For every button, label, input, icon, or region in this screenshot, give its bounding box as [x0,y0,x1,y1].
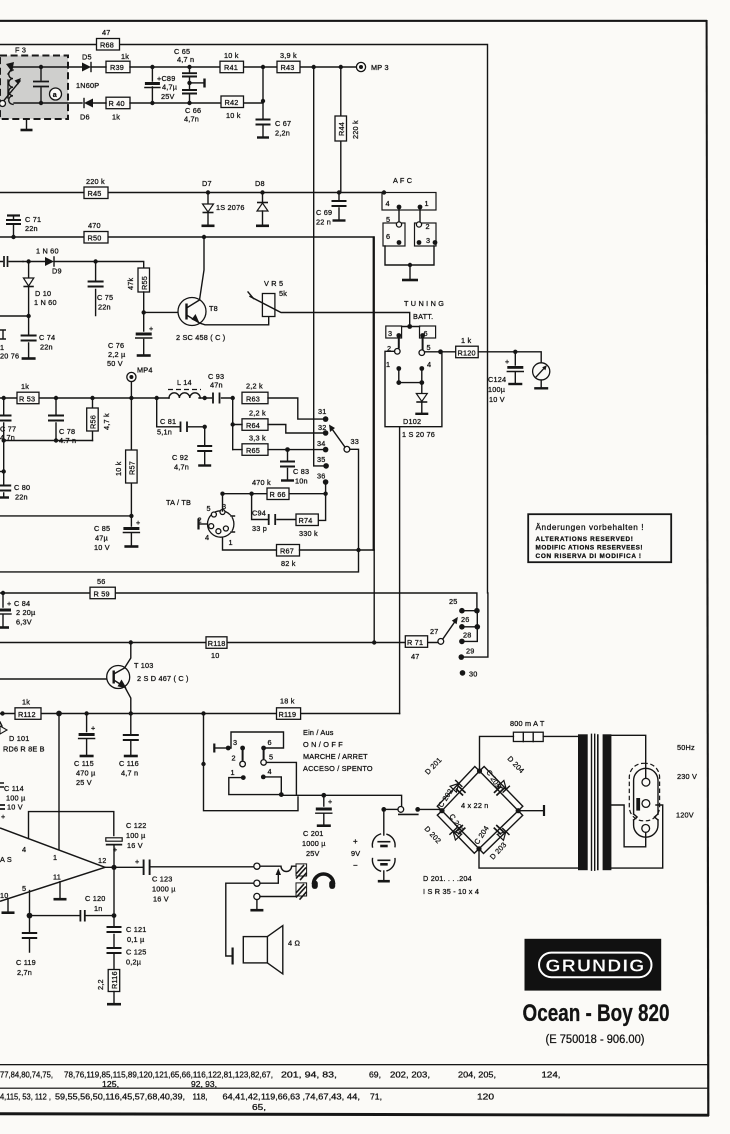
svg-text:0,2µ: 0,2µ [126,958,142,967]
capacitor C66 [182,83,201,124]
svg-text:22n: 22n [40,343,53,352]
resistor R65 [233,434,324,456]
node C78 top [54,396,58,400]
capacitor C81 branch [157,398,205,437]
wire amp pin5 [29,891,31,916]
svg-text:D 201. . . .204: D 201. . . .204 [423,874,472,883]
wire feedback column x59 [58,714,60,812]
node C75 top [93,259,97,263]
svg-text:2 SC 458 ( C ): 2 SC 458 ( C ) [176,333,225,342]
wire bridge top to fuse row [480,736,579,771]
capacitor C89 electrolytic [145,65,178,105]
wire R68 row y44.5 [0,45,488,593]
diode D9 [23,247,96,276]
svg-text:C 123: C 123 [152,875,172,884]
svg-text:1n: 1n [94,904,103,913]
svg-text:65,: 65, [252,1102,266,1112]
svg-text:10 V: 10 V [7,803,23,812]
svg-text:R63: R63 [246,394,260,403]
svg-text:35: 35 [317,455,326,464]
svg-text:5: 5 [427,343,431,352]
switch EinAus top box pins 3 6 [228,732,283,750]
amplifier triangle [0,828,107,901]
wire main row y398 [0,397,233,399]
switch AFC upper box pins 4 1 [382,190,436,210]
svg-text:4: 4 [268,767,272,776]
svg-text:2: 2 [232,754,236,763]
resistor R67 [277,545,300,569]
capacitor C122 electrolytic [106,821,147,867]
wire R59 row y593 [0,593,477,608]
node D10 top [26,259,30,263]
svg-text:800 m A T: 800 m A T [510,719,545,728]
diode D8 [255,179,269,226]
svg-text:4,7 n: 4,7 n [121,769,138,778]
svg-text:220 k: 220 k [86,177,105,186]
svg-text:29: 29 [466,647,475,656]
svg-text:+: + [149,324,153,333]
svg-text:C 115: C 115 [74,759,94,768]
fuse 800mAT [510,719,545,742]
svg-text:MODIFIC ATIONS RESERVEES!: MODIFIC ATIONS RESERVEES! [536,545,644,552]
terminal MP3 [356,62,388,72]
svg-text:1 N 60: 1 N 60 [34,298,57,307]
svg-text:C 74: C 74 [39,333,55,342]
svg-text:+: + [353,837,358,846]
svg-text:D 101: D 101 [9,734,29,743]
svg-text:1: 1 [231,768,235,777]
svg-text:2 S D 467 ( C ): 2 S D 467 ( C ) [137,674,189,683]
svg-text:25: 25 [449,597,458,606]
node bottom row left [2,438,6,442]
notice box Aenderungen vorbehalten [528,514,671,562]
svg-text:74,67,43, 44,: 74,67,43, 44, [305,1092,360,1102]
svg-text:C 114: C 114 [4,784,24,793]
svg-text:D102: D102 [403,417,421,426]
node T8 collector on R50 row [202,235,206,239]
svg-text:50 V: 50 V [107,359,123,368]
switch AFC lower left box pins 5 6 [383,209,405,246]
svg-text:25 V: 25 V [76,778,92,787]
diode D101 zener partial [0,722,45,754]
svg-text:1k: 1k [21,382,29,391]
switch contact 26 [459,611,480,630]
svg-text:10 V: 10 V [94,543,110,552]
node EinAus branch [201,711,205,715]
svg-text:1: 1 [229,538,233,547]
battery 9V [351,807,395,881]
svg-text:201, 94, 83,: 201, 94, 83, [281,1070,337,1080]
node pin5 C120 [27,913,33,919]
svg-text:10n: 10n [295,477,308,486]
node T103 collector [129,640,133,644]
speaker [233,926,301,974]
svg-text:+: + [136,518,140,527]
tap between C65 C66 [187,79,204,88]
svg-text:R 66: R 66 [270,490,286,499]
diode D6 [80,99,93,122]
switch EinAus pin3 bracket [214,744,230,753]
connector TA/TB DIN socket [198,502,235,547]
svg-text:MP 3: MP 3 [371,63,389,72]
wire T103 base row [0,678,107,680]
block F3 dashed housing [0,46,68,120]
border frame bottom thick [0,1112,709,1116]
svg-text:a: a [53,92,57,99]
svg-text:4: 4 [427,360,431,369]
switch contact 32 [318,423,328,436]
svg-text:230 V: 230 V [677,772,697,781]
capacitor C124 electrolytic [488,352,523,404]
parts-list band divider line [0,1088,709,1089]
capacitor C205 [494,786,504,795]
svg-text:CON RISERVA DI MODIFICA !: CON RISERVA DI MODIFICA ! [536,553,642,560]
wire bridge bottom row [479,849,578,868]
resistor R63 [242,382,323,420]
svg-text:V R 5: V R 5 [264,279,283,288]
svg-text:56: 56 [97,577,106,586]
svg-text:330 k: 330 k [299,529,318,538]
diode D201 [450,780,462,792]
capacitor C75 [88,262,114,316]
svg-text:O N / O F F: O N / O F F [303,740,343,749]
svg-text:3: 3 [388,329,392,338]
svg-text:R112: R112 [18,710,36,719]
resistor R118 [206,637,227,660]
svg-text:6,3V: 6,3V [16,618,32,627]
vertical branch x232.7 [232,398,234,450]
svg-text:1: 1 [425,199,429,208]
parts row2 numbers [0,1092,494,1102]
switch wiper 27 arm [430,617,458,644]
svg-text:C 83: C 83 [293,467,309,476]
svg-text:R 71: R 71 [407,638,423,647]
resistor R53 [17,382,39,404]
node C124 top [513,350,517,354]
svg-text:C 121: C 121 [126,925,146,934]
headphone icon [312,874,335,889]
switch contact 34 [317,439,328,452]
svg-text:D9: D9 [52,267,62,276]
switch EinAus pins 1 4 [231,767,272,780]
resistor R42 [221,96,244,120]
svg-text:F 3: F 3 [15,46,26,55]
wire F3 bottom row [14,102,82,104]
svg-text:78,76,119,85,115,89,120,121,65: 78,76,119,85,115,89,120,121,65,66,116,12… [64,1070,273,1080]
resistor R66 [252,478,289,500]
capacitor C119 [16,916,37,977]
wire R67 row to vertical A [300,549,375,551]
switch EinAus lower contacts frame [229,762,297,797]
capacitor C92 [172,425,212,472]
wire long row y571.9 [0,550,359,572]
resistor R57 vertical [114,398,137,516]
mains plug pin sockets [636,778,650,832]
node R44 column [339,65,343,69]
rectifier bridge inner diamond [442,771,518,849]
border frame right [706,20,710,1116]
capacitor C201 electrolytic [302,795,332,858]
rectifier bridge outer edge UL [437,767,479,811]
svg-text:4,7 k: 4,7 k [102,413,111,430]
svg-text:R45: R45 [88,189,102,198]
transformer primary winding bar [578,734,588,870]
svg-text:5: 5 [386,215,390,224]
svg-text:C94: C94 [252,509,266,518]
node R56 top [90,396,94,400]
capacitor C125 [107,948,147,970]
mains plug dashed outline [629,763,659,821]
svg-text:R39: R39 [110,63,124,72]
label Ein/Aus ON/OFF [303,728,373,773]
svg-text:100 µ: 100 µ [126,831,146,840]
svg-text:59,55,56,50,116,45,57,68,40,39: 59,55,56,50,116,45,57,68,40,39, [55,1092,185,1102]
switch wiper 33 [329,425,359,551]
svg-text:D 10: D 10 [35,289,51,298]
parts-list band top line [0,1064,709,1065]
svg-text:1: 1 [53,853,57,862]
svg-text:31: 31 [318,407,327,416]
svg-text:18 k: 18 k [280,697,295,706]
jack switch contact sleeve ground [250,893,296,910]
wire jack mid to speaker [226,883,254,956]
capacitor C76 electrolytic [107,312,153,368]
switch contact 28 [459,627,477,644]
svg-text:3,3 k: 3,3 k [249,434,266,443]
node MP3 column [312,65,316,69]
node C85 top [129,514,133,518]
wire DIN pin1 to R67 row [223,538,277,551]
svg-text:3: 3 [426,236,430,245]
node C120 right [112,913,117,918]
resistor R40 [106,97,130,121]
svg-text:92, 93,: 92, 93, [191,1079,217,1089]
svg-text:25V: 25V [161,92,175,101]
ferrite antenna coil in F3 [0,62,21,107]
svg-text:202, 203,: 202, 203, [390,1070,430,1080]
svg-text:C 75: C 75 [97,293,113,302]
resistor R71 [405,636,427,661]
svg-text:470 µ: 470 µ [76,769,96,778]
svg-text:R41: R41 [224,63,238,72]
svg-text:22 n: 22 n [316,218,331,227]
svg-text:GRUNDIG: GRUNDIG [546,956,646,976]
svg-text:R57: R57 [127,461,136,475]
svg-text:C 125: C 125 [126,948,146,957]
wire bottom row C77 C78 R56 [4,440,93,442]
terminal MP4 [127,366,153,399]
svg-text:30: 30 [469,670,478,679]
svg-text:5: 5 [22,884,26,893]
svg-text:+: + [7,599,11,608]
svg-text:26: 26 [461,615,470,624]
wire amp pin4 pin1 C122 top rail y811.6 [29,812,114,850]
svg-text:A F C: A F C [393,176,412,185]
switch EinAus pins 2 5 [232,748,274,767]
switch contact 29 [459,593,488,660]
diode D5 [76,53,99,91]
svg-text:25V: 25V [306,849,320,858]
node C94 branch top [249,492,253,496]
svg-text:0,1 µ: 0,1 µ [127,935,145,944]
svg-text:64,41,42,: 64,41,42, [223,1092,261,1102]
svg-text:10 k: 10 k [226,111,241,120]
svg-text:4,115, 53, 112 ,: 4,115, 53, 112 , [0,1092,51,1102]
svg-text:T U N I N G: T U N I N G [404,299,444,308]
wire amp output down to C121 [113,867,115,915]
rectifier bridge outer edge LR [479,811,523,854]
wire into node y316 [0,315,29,317]
capacitor C71 [6,215,41,239]
svg-text:34: 34 [317,439,326,448]
svg-text:R 53: R 53 [19,394,35,403]
wire F3 top row [14,66,82,68]
svg-text:69,: 69, [369,1070,381,1080]
svg-text:D 204: D 204 [506,754,527,775]
svg-text:4,7 n: 4,7 n [177,55,194,64]
svg-text:22n: 22n [98,303,111,312]
diode D10 [23,262,56,317]
svg-text:2,2 k: 2,2 k [249,409,266,418]
svg-text:R119: R119 [279,710,297,719]
svg-text:C 78: C 78 [59,427,75,436]
svg-text:47µ: 47µ [95,534,109,543]
wire y515.9 row [0,515,131,517]
diode D7 [202,179,245,226]
svg-text:4: 4 [386,199,390,208]
capacitor C80 [0,441,30,502]
resistor R112 [15,698,41,720]
svg-text:T8: T8 [209,304,218,313]
svg-text:R 40: R 40 [109,99,125,108]
svg-text:2,2: 2,2 [96,979,105,990]
resistor R74 [296,514,318,538]
capacitor C65 [174,47,197,83]
svg-text:120V: 120V [676,811,694,820]
headphone jack hatched bushing [296,864,307,900]
wire secondary 230V loop [611,805,645,847]
resistor R64 [233,409,324,434]
svg-text:C 120: C 120 [85,894,105,903]
diode D102 [402,383,435,439]
node T8 base [142,310,146,314]
svg-text:100µ: 100µ [488,385,506,394]
node bridge corners [439,768,520,851]
svg-text:1000 µ: 1000 µ [302,839,326,848]
node C84 top [1,591,5,595]
capacitor C77 [0,398,16,442]
svg-text:MARCHE / ARRET: MARCHE / ARRET [303,752,368,761]
svg-text:82 k: 82 k [281,559,296,568]
resistor R68 [97,28,120,50]
svg-text:11: 11 [53,873,61,882]
svg-text:124,: 124, [542,1070,561,1080]
svg-text:120: 120 [477,1092,494,1102]
switch tuning batt frame [385,349,456,426]
node C74 top [26,314,30,318]
parts row1 second line [102,1079,217,1089]
potentiometer VR5 [248,279,410,325]
svg-text:C 69: C 69 [316,208,332,217]
node R66 row left [220,492,224,496]
transformer secondary winding bar [603,734,612,870]
svg-text:−: − [353,861,358,870]
svg-text:47n: 47n [210,381,223,390]
diode D202 [450,828,462,840]
capacitor C84 electrolytic [0,593,36,628]
svg-text:D7: D7 [202,179,212,188]
svg-text:36: 36 [317,472,326,481]
svg-text:R56: R56 [89,415,98,429]
svg-text:R55: R55 [140,276,149,290]
node R66 right contact36 column [323,492,327,496]
jack switch contact top [254,863,296,871]
svg-text:1k: 1k [112,113,120,122]
wire vertical A x374.2 [373,237,375,643]
capacitor C115 electrolytic [74,714,96,788]
wire R50 row y237 [0,237,373,550]
svg-text:9V: 9V [351,849,360,858]
svg-text:Ein / Aus: Ein / Aus [303,728,334,737]
svg-text:16 V: 16 V [153,895,169,904]
svg-text:3: 3 [233,738,237,747]
mains plug solid body [634,768,658,837]
wire R40 row y103 [93,102,263,104]
wire AFC bottom to ground [385,246,434,280]
node row left [0,711,4,715]
svg-text:1N60P: 1N60P [76,81,99,90]
svg-text:+: + [135,857,139,866]
svg-text:R116: R116 [110,971,119,989]
rectifier bridge outer edge UR [480,767,523,811]
svg-text:C 81: C 81 [160,417,176,426]
diode D204 [498,780,510,792]
svg-text:R43: R43 [281,63,295,72]
wire T8 base [144,311,178,313]
svg-text:470 k: 470 k [252,478,271,487]
resistor R39 [106,52,130,73]
svg-text:RD6 R 8E B: RD6 R 8E B [3,745,45,754]
svg-text:2: 2 [426,222,430,231]
svg-text:D6: D6 [80,113,90,122]
amp pin11 ground stub [54,882,67,900]
svg-text:125,: 125, [102,1079,119,1089]
capacitor C116 [119,714,139,778]
transistor T8 [176,298,225,343]
svg-text:1k: 1k [22,698,30,707]
svg-text:1k: 1k [121,52,129,61]
wire T8 emitter row [200,316,269,325]
node C201 top [321,793,326,798]
resistor R45 [84,177,108,199]
svg-text:R118: R118 [208,639,226,648]
svg-text:R64: R64 [246,421,260,430]
svg-text:10 k: 10 k [114,461,123,476]
svg-text:R67: R67 [280,547,294,556]
switch mains on-off contact [384,807,442,815]
wire tuning frame to R119 row [399,427,401,714]
resistor R116 vertical [96,970,121,1005]
capacitor C123 electrolytic series [135,857,176,904]
parts row1 numbers [0,1070,561,1080]
switch EinAus outer frame [201,714,298,811]
svg-text:2,2n: 2,2n [275,129,290,138]
inductor L14 [168,378,201,398]
capacitor C94 series [252,494,296,533]
switch tuning batt pins 2 5 [387,336,431,356]
svg-text:R 59: R 59 [94,589,110,598]
capacitor C74 [21,316,56,359]
